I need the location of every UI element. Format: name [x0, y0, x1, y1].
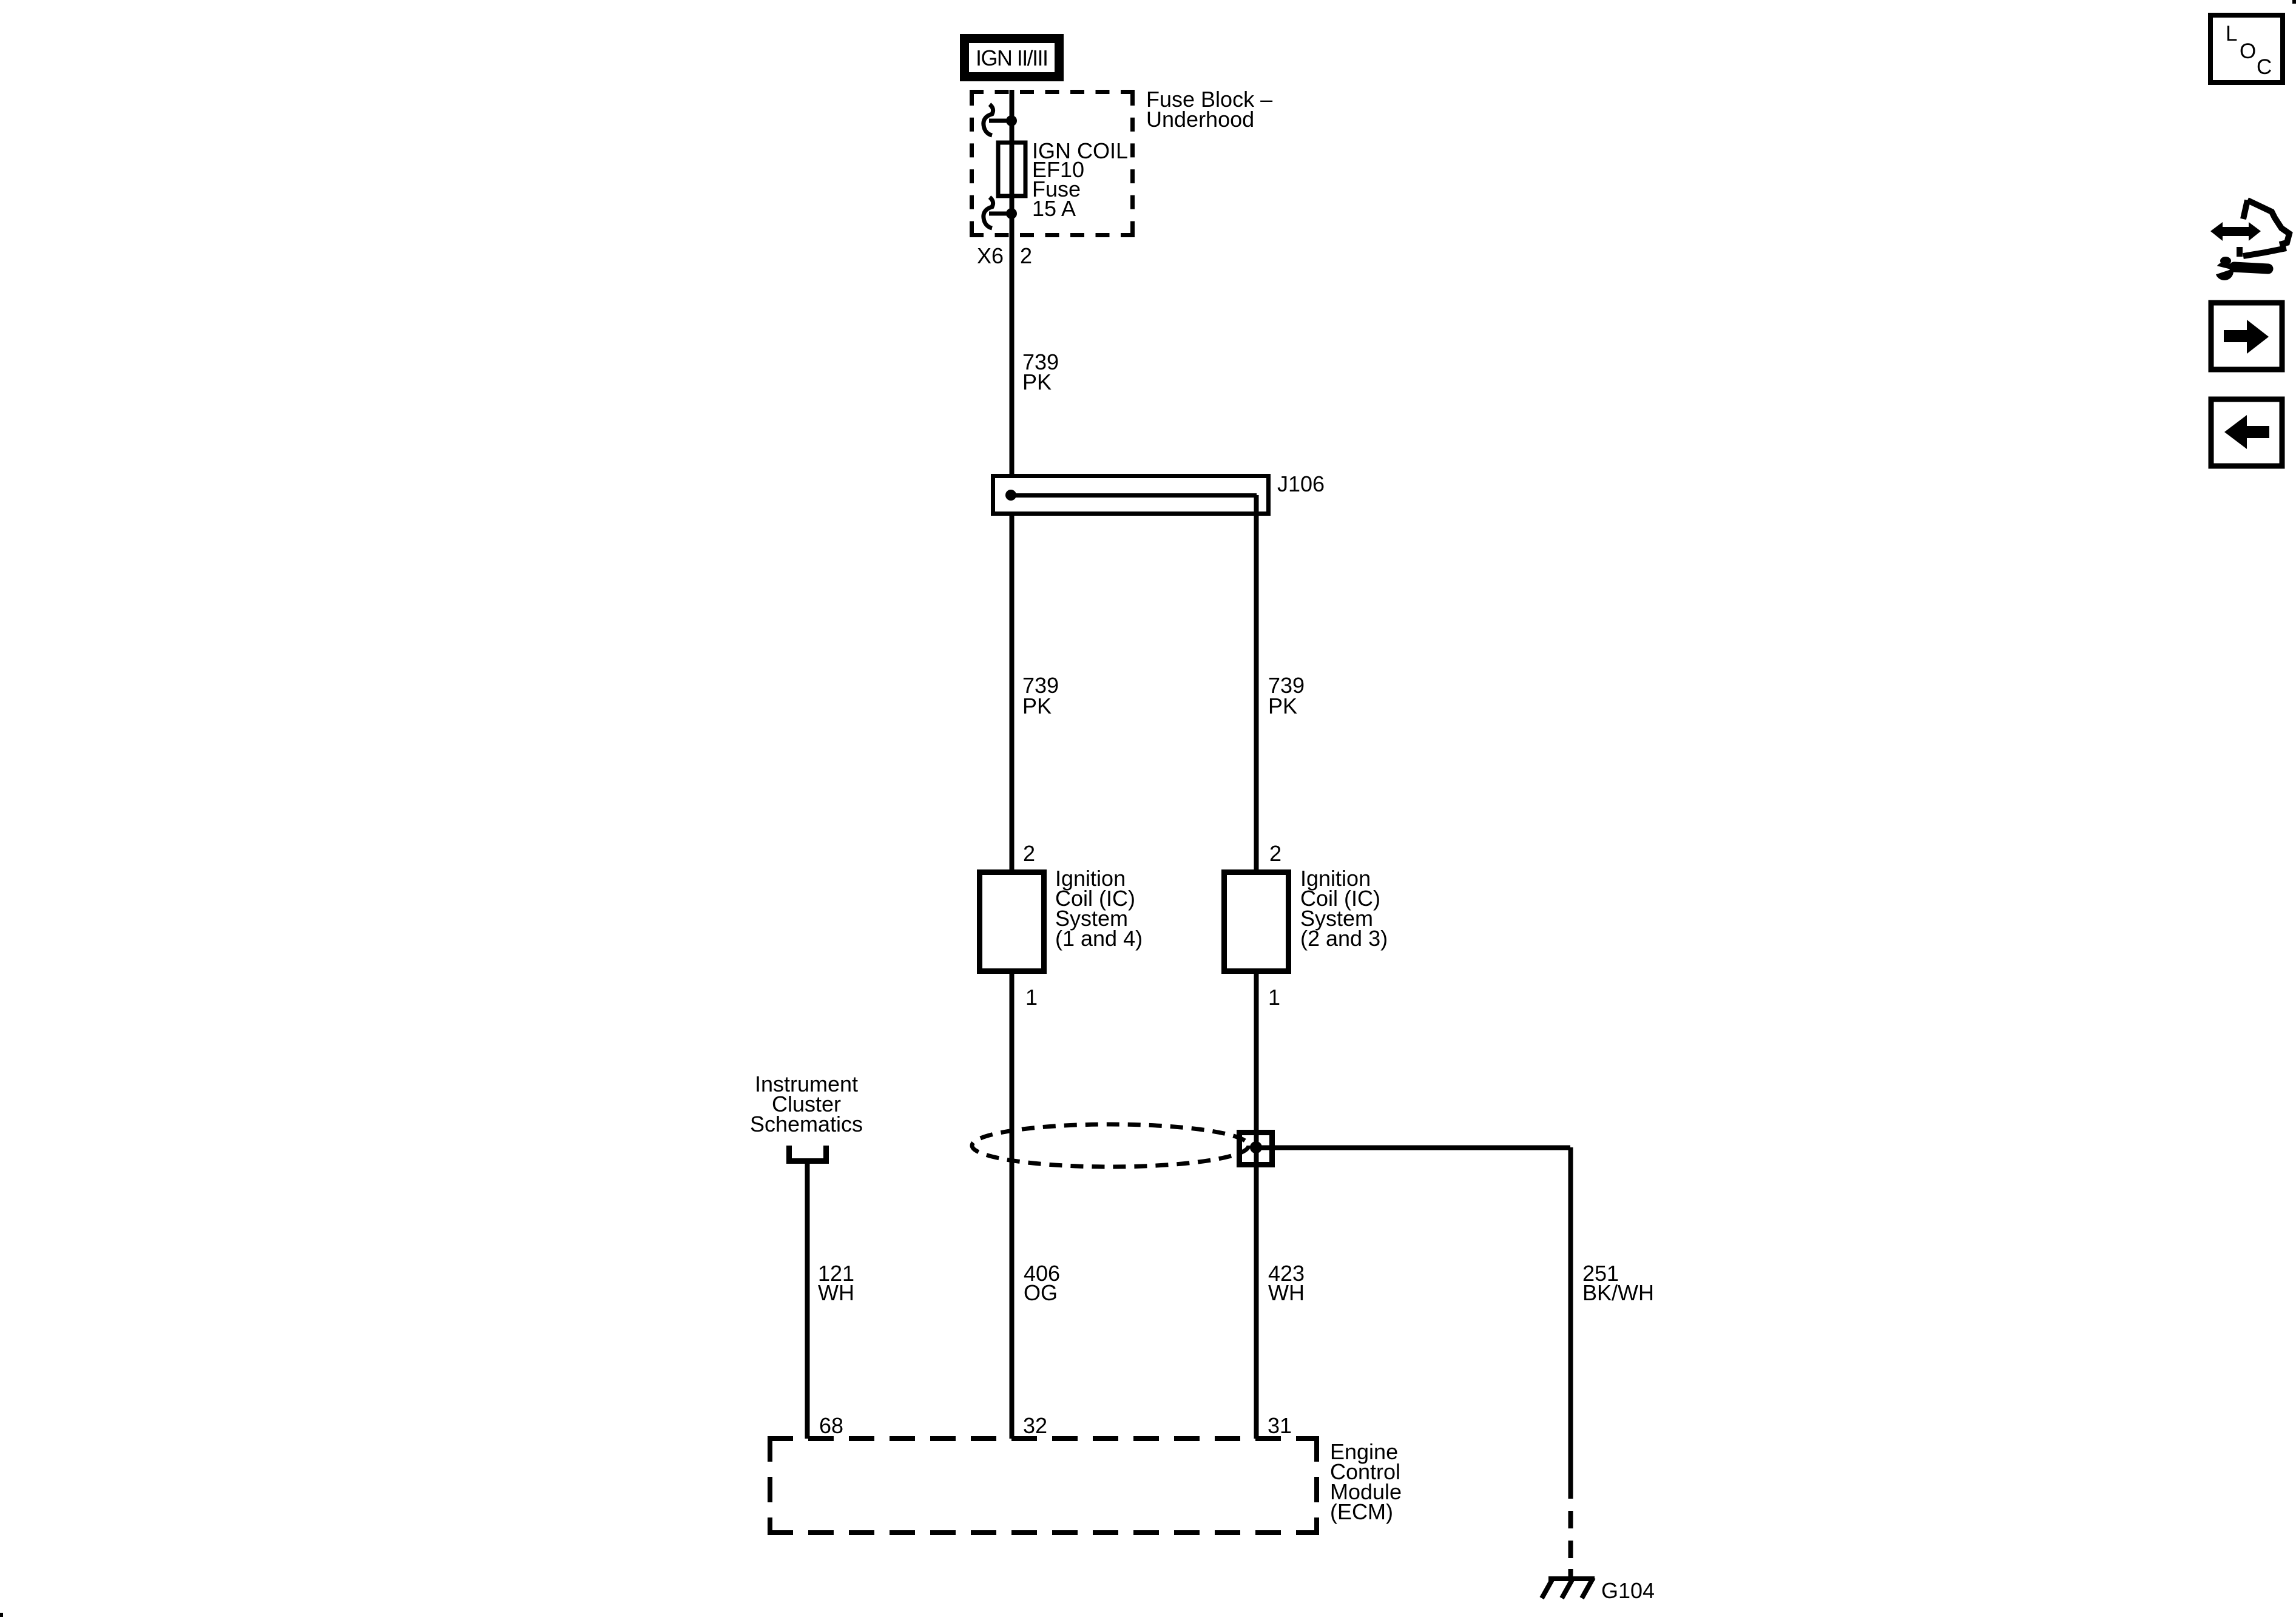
corner artifact bottom left	[0, 1613, 3, 1617]
nav box arrow right	[2211, 303, 2282, 370]
svg-text:(ECM): (ECM)	[1330, 1499, 1393, 1524]
dashed wire to ground	[1568, 1511, 1573, 1578]
svg-text:32: 32	[1023, 1413, 1047, 1438]
ignition coil box 2 and 3	[1224, 873, 1289, 971]
connector terminal hook bottom	[984, 197, 1011, 228]
connector labels X6 2	[977, 243, 1032, 268]
instrument cluster schematics labels	[750, 1072, 863, 1136]
wire label 739 PK left	[1022, 673, 1059, 718]
inline connector box	[1240, 1133, 1272, 1165]
svg-text:O: O	[2240, 39, 2256, 63]
wire left coil to ECM 406 OG	[1010, 974, 1015, 1439]
wire right 739 PK	[1254, 495, 1259, 869]
svg-text:(1 and 4): (1 and 4)	[1055, 926, 1143, 951]
svg-text:1: 1	[1268, 985, 1280, 1010]
fuse block underhood dashed box	[970, 92, 1135, 235]
svg-text:31: 31	[1268, 1413, 1292, 1438]
junction dot top	[1006, 115, 1017, 126]
svg-text:OG: OG	[1024, 1280, 1058, 1305]
connector terminal hook top	[984, 104, 1011, 135]
svg-text:2: 2	[1023, 841, 1035, 866]
wire label 739 PK right	[1268, 673, 1305, 718]
wire from tag into fuse block	[1010, 90, 1015, 121]
svg-text:X6: X6	[977, 243, 1004, 268]
label Fuse Block - Underhood	[1146, 87, 1272, 132]
service icon double arrow	[2210, 222, 2261, 241]
wire left 739 PK	[1010, 516, 1015, 869]
nav box arrow left	[2211, 399, 2282, 466]
power tag IGN II/III	[960, 34, 1064, 81]
svg-text:68: 68	[819, 1413, 843, 1438]
svg-text:WH: WH	[818, 1280, 854, 1305]
wire label 739 PK upper	[1022, 349, 1059, 394]
svg-text:15 A: 15 A	[1032, 196, 1076, 221]
fuse EF10 rect	[998, 143, 1025, 196]
harness dashed ellipse	[972, 1124, 1249, 1167]
ignition coil box 1 and 4	[980, 873, 1044, 971]
wire out of fuse block	[1010, 214, 1015, 474]
svg-text:IGN II/III: IGN II/III	[976, 46, 1048, 70]
svg-text:2: 2	[1020, 243, 1032, 268]
wire to ground branch	[1256, 1146, 1570, 1150]
svg-text:BK/WH: BK/WH	[1582, 1280, 1654, 1305]
junction dot connector	[1250, 1141, 1262, 1153]
service icon panel outline	[2240, 200, 2289, 257]
junction dot bottom	[1006, 208, 1017, 219]
ECM labels	[1330, 1439, 1402, 1524]
svg-text:C: C	[2257, 55, 2272, 79]
svg-text:PK: PK	[1022, 370, 1052, 394]
junction dot J106	[1005, 490, 1016, 501]
svg-text:2: 2	[1269, 841, 1281, 866]
svg-text:Underhood: Underhood	[1146, 107, 1254, 132]
ground G104	[1542, 1569, 1595, 1598]
wire label 251 BK/WH	[1582, 1261, 1654, 1305]
fuse labels	[1032, 138, 1128, 221]
svg-text:1: 1	[1025, 985, 1038, 1010]
corner artifact top right	[2292, 0, 2296, 4]
wire instrument cluster 121 WH	[805, 1164, 810, 1439]
svg-text:PK: PK	[1268, 694, 1297, 718]
wire label 121 WH	[818, 1261, 854, 1305]
wire through fuse	[1010, 121, 1015, 214]
wire right coil to connector 423 WH	[1254, 974, 1259, 1439]
ignition coil 2and3 labels	[1300, 866, 1388, 951]
splice pack J106	[993, 476, 1269, 514]
svg-text:PK: PK	[1022, 694, 1052, 718]
wire label 423 WH	[1268, 1261, 1305, 1305]
off-page bracket	[786, 1146, 829, 1161]
svg-text:Schematics: Schematics	[750, 1112, 863, 1136]
service icon wrench	[2214, 257, 2268, 280]
svg-text:WH: WH	[1268, 1280, 1305, 1305]
svg-text:(2 and 3): (2 and 3)	[1300, 926, 1388, 951]
svg-text:G104: G104	[1601, 1578, 1655, 1603]
LOC logo box	[2210, 15, 2283, 83]
ignition coil 1and4 labels	[1055, 866, 1143, 951]
wire label 406 OG	[1024, 1261, 1060, 1305]
svg-text:J106: J106	[1277, 471, 1325, 496]
ECM dashed box	[768, 1436, 1319, 1535]
svg-text:L: L	[2226, 22, 2237, 46]
